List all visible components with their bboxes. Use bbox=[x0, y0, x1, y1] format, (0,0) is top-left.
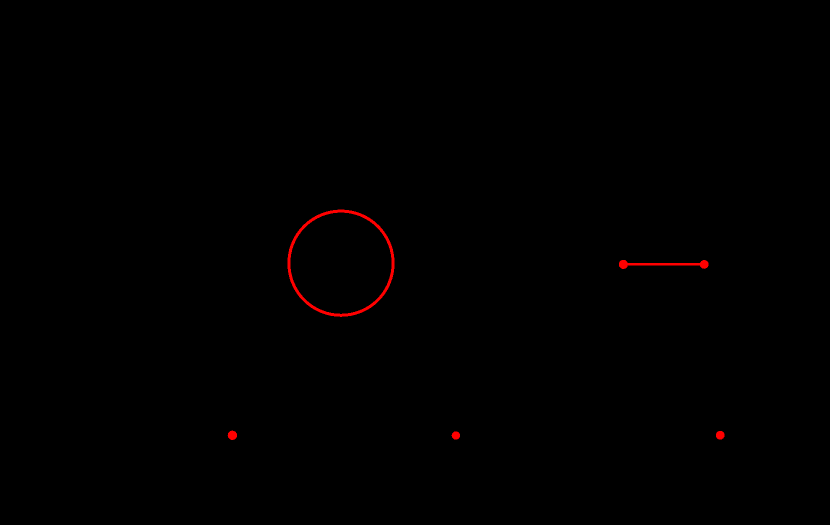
node B (right end of wire) bbox=[700, 260, 709, 269]
node C (bottom-rail junction, left) bbox=[228, 431, 237, 440]
node E (bottom-rail junction, right) bbox=[716, 431, 725, 440]
source V1 (highlighted circle) bbox=[289, 211, 393, 315]
node D (bottom-rail junction, middle) bbox=[452, 431, 460, 439]
node A (left end of wire) bbox=[619, 260, 628, 269]
wire (highlighted segment) bbox=[623, 263, 704, 266]
